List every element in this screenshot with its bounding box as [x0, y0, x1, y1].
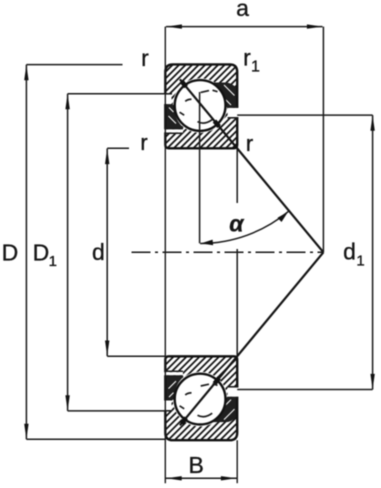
d top leader (split by r label)	[107, 147, 129, 149]
apex vertical extension line	[322, 27, 324, 253]
dimension D line	[25, 65, 27, 440]
right gap notch (bottom bearing)	[228, 388, 239, 397]
right gap notch (top bearing)	[228, 108, 239, 117]
contact line through top ball to apex	[180, 79, 324, 252]
dimension d line	[106, 149, 108, 357]
svg-text:d: d	[92, 239, 105, 265]
svg-text:α: α	[229, 211, 245, 237]
svg-text:r: r	[140, 130, 147, 155]
svg-text:a: a	[236, 0, 249, 21]
dashed raceway-edge marks inside bottom ball	[180, 384, 218, 417]
ball (bottom) white fill	[173, 372, 228, 427]
inner ring relief strip (bottom bearing, left)	[164, 372, 183, 375]
d1 top leader	[237, 114, 372, 116]
ball (top) white fill	[173, 78, 228, 133]
D1 bottom leader	[68, 410, 166, 412]
svg-text:r: r	[243, 44, 251, 70]
bearing outer/inner ring section, top (hatched square)	[165, 64, 237, 148]
inner ring shoulder dark pocket (bottom bearing, left of ball)	[167, 377, 184, 400]
svg-text:1: 1	[251, 59, 260, 76]
bearing section, bottom (hatched square)	[165, 356, 237, 440]
dashed raceway-edge marks inside top ball	[180, 90, 218, 123]
svg-text:r: r	[246, 131, 253, 156]
svg-text:r: r	[141, 45, 149, 71]
left face extension line (a / B extension)	[164, 27, 166, 484]
axis centre line (dash-dot)	[132, 251, 324, 253]
svg-text:1: 1	[49, 253, 57, 270]
right face extension line lower part	[236, 249, 238, 356]
d1 bottom leader	[237, 389, 372, 391]
d bottom leader	[107, 355, 165, 357]
dimension a line	[166, 26, 323, 28]
left gap notch (top bearing)	[164, 95, 172, 105]
alpha angle arc	[200, 211, 289, 243]
right face extension line upper part	[236, 148, 238, 203]
D top leader	[26, 64, 122, 66]
D1 top leader	[68, 93, 166, 95]
outer ring shoulder dark pocket (bottom bearing, right of ball)	[213, 398, 236, 423]
inner ring shoulder dark pocket (top bearing, left of ball)	[167, 105, 184, 128]
left gap notch (bottom bearing)	[164, 401, 172, 411]
contact point blobs (top ball)	[182, 81, 187, 87]
ball (bottom) outline	[175, 374, 226, 425]
inner ring relief strip (top bearing, left)	[164, 129, 183, 132]
svg-text:d: d	[343, 239, 356, 265]
right face extension to B line	[236, 440, 238, 483]
svg-text:D: D	[33, 239, 50, 265]
dimension D1 line	[67, 94, 69, 411]
svg-text:D: D	[2, 239, 19, 265]
svg-text:1: 1	[356, 253, 364, 270]
D bottom leader	[26, 438, 165, 440]
svg-text:B: B	[189, 452, 204, 478]
contact point blobs (bottom ball)	[182, 418, 187, 424]
radial (vertical) line from top ball centre	[199, 92, 201, 243]
contact line through bottom ball to apex	[180, 252, 324, 425]
dimension B line	[166, 477, 237, 479]
outer ring shoulder dark pocket (top bearing, right of ball)	[213, 83, 236, 108]
ball (top) outline	[175, 80, 226, 131]
dimension d1 line	[372, 115, 374, 389]
